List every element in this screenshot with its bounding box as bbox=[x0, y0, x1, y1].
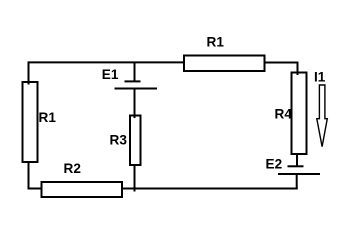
wire right vertical to R4 bbox=[297, 62, 299, 76]
wire bottom horizontal (right of R2) bbox=[121, 188, 298, 190]
wire bottom-left horizontal bbox=[28, 188, 43, 190]
wire top-right horizontal bbox=[265, 62, 299, 64]
wire left vertical below R1 bbox=[28, 161, 30, 190]
svg-text:R1: R1 bbox=[39, 110, 57, 125]
resistor R1 (top) bbox=[184, 56, 265, 72]
svg-text:R4: R4 bbox=[275, 107, 293, 122]
wire top horizontal bbox=[28, 61, 185, 63]
battery E1 long plate bbox=[115, 88, 158, 90]
resistor R1 (left) bbox=[23, 82, 38, 162]
current arrow I1 bbox=[317, 85, 328, 147]
wire E1 top bbox=[134, 62, 136, 82]
resistor R4 bbox=[292, 73, 307, 155]
svg-text:R3: R3 bbox=[110, 132, 128, 147]
svg-text:E1: E1 bbox=[102, 67, 119, 82]
wire R3 to bottom, junction bbox=[134, 164, 136, 192]
wire E1 to R3 bbox=[134, 89, 136, 119]
svg-text:R2: R2 bbox=[64, 161, 82, 176]
svg-text:E2: E2 bbox=[266, 157, 283, 172]
wire R4 to E2 bbox=[296, 154, 298, 167]
svg-text:I1: I1 bbox=[314, 69, 326, 84]
resistor R3 bbox=[130, 116, 141, 166]
wire top-left vertical bbox=[28, 62, 30, 85]
wire E2 down bbox=[296, 174, 298, 190]
battery E1 short plate bbox=[125, 80, 141, 82]
battery E2 short plate bbox=[288, 165, 304, 167]
svg-text:R1: R1 bbox=[207, 35, 225, 50]
resistor R2 bbox=[42, 182, 123, 197]
battery E2 long plate bbox=[278, 173, 320, 175]
